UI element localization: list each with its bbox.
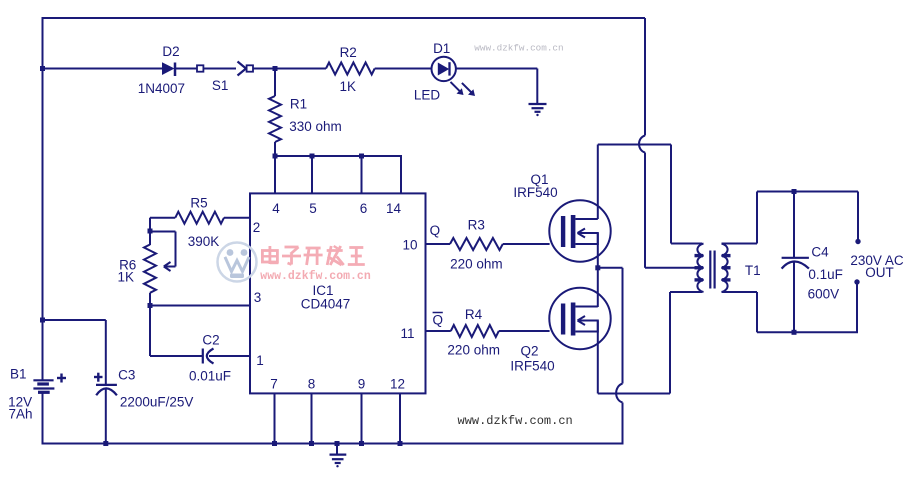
svg-text:Q2: Q2 (520, 343, 538, 358)
svg-text:4: 4 (272, 201, 280, 216)
svg-text:D2: D2 (162, 44, 179, 59)
svg-text:CD4047: CD4047 (301, 296, 351, 311)
svg-text:R3: R3 (468, 218, 485, 233)
svg-text:220 ohm: 220 ohm (450, 257, 503, 272)
svg-text:C3: C3 (118, 367, 135, 382)
svg-text:390K: 390K (188, 234, 220, 249)
svg-text:10: 10 (402, 237, 417, 252)
svg-text:1: 1 (256, 353, 264, 368)
svg-text:IRF540: IRF540 (513, 185, 557, 200)
svg-text:S1: S1 (212, 78, 229, 93)
svg-text:11: 11 (400, 326, 414, 341)
svg-text:D1: D1 (433, 41, 450, 56)
svg-text:www.dzkfw.com.cn: www.dzkfw.com.cn (474, 43, 563, 54)
svg-text:14: 14 (386, 201, 402, 216)
svg-text:C4: C4 (811, 244, 829, 259)
svg-text:0.1uF: 0.1uF (808, 267, 843, 282)
svg-text:OUT: OUT (865, 265, 894, 280)
svg-text:T1: T1 (745, 263, 761, 278)
svg-text:1N4007: 1N4007 (138, 81, 185, 96)
svg-text:2: 2 (253, 220, 261, 235)
svg-text:3: 3 (254, 290, 262, 305)
svg-text:www.dzkfw.com.cn: www.dzkfw.com.cn (260, 270, 371, 283)
svg-text:1K: 1K (117, 269, 134, 284)
svg-text:0.01uF: 0.01uF (189, 368, 231, 383)
svg-text:www.dzkfw.com.cn: www.dzkfw.com.cn (458, 414, 573, 428)
svg-text:R2: R2 (340, 45, 357, 60)
svg-text:9: 9 (358, 376, 366, 391)
svg-text:7Ah: 7Ah (8, 407, 32, 422)
svg-text:Q: Q (432, 312, 443, 327)
svg-text:330 ohm: 330 ohm (289, 119, 342, 134)
svg-text:LED: LED (414, 88, 441, 103)
svg-text:7: 7 (270, 376, 278, 391)
svg-text:5: 5 (309, 201, 317, 216)
svg-text:C2: C2 (202, 332, 219, 347)
svg-text:Q: Q (430, 223, 441, 238)
svg-text:IRF540: IRF540 (510, 358, 554, 373)
svg-text:220 ohm: 220 ohm (447, 342, 500, 357)
svg-text:R4: R4 (465, 307, 483, 322)
svg-text:6: 6 (360, 201, 368, 216)
svg-text:1K: 1K (339, 79, 356, 94)
svg-text:R5: R5 (190, 196, 207, 211)
svg-text:2200uF/25V: 2200uF/25V (120, 395, 194, 410)
svg-text:B1: B1 (10, 367, 27, 382)
svg-text:12: 12 (390, 376, 405, 391)
svg-text:R1: R1 (290, 97, 307, 112)
svg-text:600V: 600V (808, 286, 840, 301)
svg-text:8: 8 (308, 376, 316, 391)
